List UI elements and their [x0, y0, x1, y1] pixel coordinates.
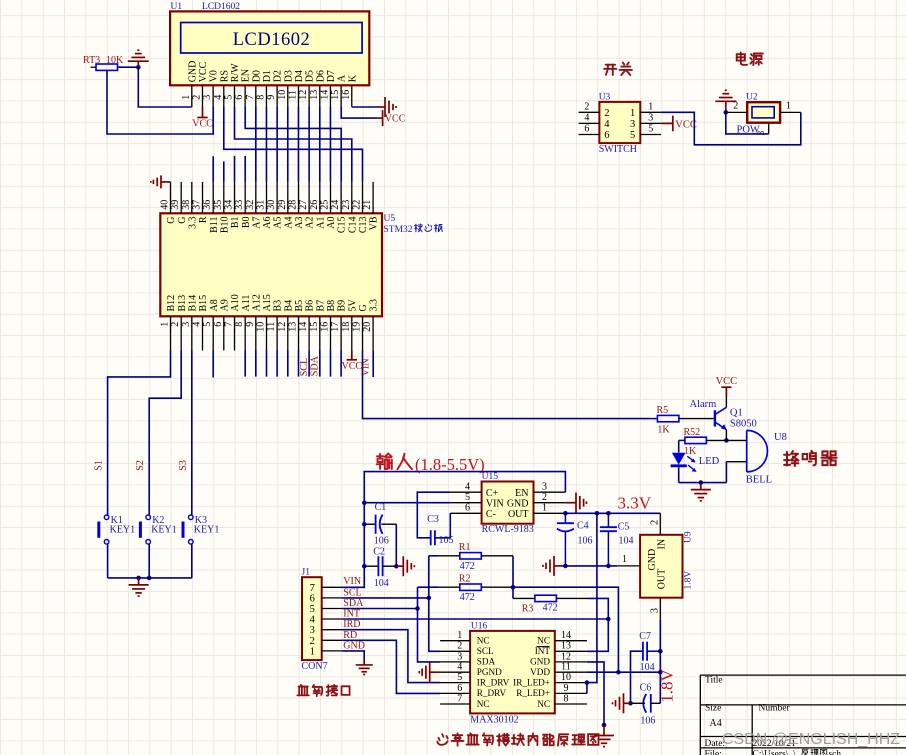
- svg-text:B9: B9: [337, 300, 348, 312]
- svg-text:3: 3: [542, 482, 547, 493]
- heading 电源 (power): [737, 52, 747, 64]
- svg-text:R1: R1: [459, 542, 471, 553]
- svg-text:PGND: PGND: [477, 667, 502, 677]
- svg-text:VCC: VCC: [342, 361, 363, 372]
- svg-text:28: 28: [288, 200, 299, 210]
- J1 pin 1: [322, 650, 343, 652]
- svg-text:STM32: STM32: [384, 225, 413, 235]
- svg-text:KEY1: KEY1: [110, 525, 136, 536]
- U5 pin 28 A3: [298, 182, 300, 213]
- svg-text:1K: 1K: [657, 425, 670, 436]
- ground below pin12 wire: [603, 725, 605, 736]
- U9 pin2 IN: [659, 513, 661, 535]
- svg-text:R: R: [198, 216, 209, 223]
- svg-text:14: 14: [561, 630, 571, 641]
- svg-text:D0: D0: [251, 70, 262, 82]
- wire U15 pin5 VIN: [364, 502, 450, 504]
- resistor R1: [460, 553, 482, 559]
- U3 left pin 2: [579, 111, 600, 113]
- svg-text:SCL: SCL: [299, 358, 310, 376]
- U15 right pin 1: [534, 512, 566, 514]
- IC U15 RCWL-9183: [482, 482, 534, 524]
- svg-text:11: 11: [266, 322, 277, 332]
- wire LCD pin15 A to VCC: [341, 107, 377, 118]
- svg-text:14: 14: [319, 90, 330, 100]
- wire R1 left down to U16 SCL: [429, 556, 440, 652]
- wire LCD D6 to U5 pin 26: [319, 107, 321, 182]
- U1 pin 14 D7: [329, 85, 331, 107]
- switch K3 KEY1: [189, 515, 194, 520]
- U1 pin 16 K: [351, 85, 353, 107]
- svg-text:12: 12: [277, 322, 288, 332]
- svg-text:A12: A12: [251, 294, 262, 311]
- svg-text:C15: C15: [337, 217, 348, 234]
- wire INT: [342, 618, 608, 620]
- J1 pin 5: [322, 608, 343, 610]
- power VCC at Q1 collector: [725, 387, 727, 396]
- svg-text:4: 4: [310, 615, 316, 626]
- svg-text:27: 27: [298, 200, 309, 210]
- U5 pin 33 B0: [244, 182, 246, 213]
- U16 pin 5: [440, 682, 470, 684]
- stub wire U5 pin 15: [319, 351, 321, 377]
- svg-text:19: 19: [352, 322, 363, 332]
- svg-text:16: 16: [320, 322, 331, 332]
- svg-text:CSDN @ENGLISH_HHZ: CSDN @ENGLISH_HHZ: [722, 731, 900, 748]
- wire LCD D5 to U5 pin 27: [308, 107, 310, 182]
- svg-text:V0: V0: [209, 70, 220, 82]
- U3 left pin 6: [579, 134, 600, 136]
- power VCC at U3 pin3: [661, 122, 673, 124]
- svg-text:1: 1: [622, 554, 627, 565]
- power VCC at U5 pin18: [351, 351, 353, 360]
- wire key ground rail: [108, 577, 192, 579]
- U5 pin 35 B10: [223, 182, 225, 213]
- svg-text:472: 472: [543, 603, 558, 614]
- U1 pin 3 V0: [212, 85, 214, 107]
- svg-text:NC: NC: [537, 636, 550, 646]
- wire U16 pin12 GND: [587, 662, 604, 725]
- svg-text:RT3: RT3: [83, 55, 100, 66]
- wire 3.3V down to LED+ pins: [587, 513, 597, 682]
- svg-text:R52: R52: [684, 427, 701, 438]
- J1 pin 3: [322, 629, 343, 631]
- U5 pin 22 C13: [362, 182, 364, 213]
- svg-text:B15: B15: [198, 295, 209, 312]
- svg-text:104: 104: [374, 578, 389, 589]
- svg-text:A1: A1: [315, 217, 326, 229]
- svg-text:RCWL-9183: RCWL-9183: [482, 524, 534, 535]
- U16 pin 12: [555, 661, 587, 663]
- svg-text:12: 12: [298, 90, 309, 100]
- resistor R5: [657, 415, 679, 421]
- svg-text:4: 4: [584, 113, 589, 124]
- svg-text:6: 6: [310, 593, 315, 604]
- U1 pin 12 D5: [308, 85, 310, 107]
- svg-text:IN: IN: [656, 539, 667, 550]
- svg-text:D2: D2: [273, 70, 284, 82]
- svg-text:D5: D5: [305, 70, 316, 82]
- U3 left pin 4: [579, 122, 600, 124]
- LED arrows: [687, 456, 694, 461]
- IC U3: [599, 102, 640, 143]
- svg-text:1K: 1K: [684, 446, 697, 457]
- svg-text:25: 25: [320, 200, 331, 210]
- J1 pin 4: [322, 618, 343, 620]
- svg-text:S1: S1: [94, 460, 105, 471]
- U5 pin 17 B9: [340, 316, 342, 350]
- ground at LCD pin16: [378, 106, 385, 108]
- wire LCD pin6 EN to U5 pin24: [245, 107, 341, 182]
- U5 pin 34 B1: [234, 182, 236, 213]
- U15 left pin 5: [450, 502, 481, 504]
- svg-text:G: G: [166, 217, 177, 224]
- svg-text:C5: C5: [618, 521, 630, 532]
- wire U16 pin13 INT: [587, 619, 608, 651]
- svg-text:10K: 10K: [106, 55, 124, 66]
- svg-text:SDA: SDA: [310, 355, 321, 376]
- node U2 pin2 junction: [724, 110, 729, 115]
- svg-text:BELL: BELL: [746, 474, 772, 485]
- U5 pin 16 B8: [330, 316, 332, 350]
- svg-text:5: 5: [310, 604, 315, 615]
- svg-text:17: 17: [330, 322, 341, 332]
- heading 血氧接口 (blood oxygen port): [297, 685, 308, 695]
- svg-text:5: 5: [457, 672, 462, 683]
- svg-text:32: 32: [245, 200, 256, 210]
- svg-text:13: 13: [561, 641, 571, 652]
- power VCC at LCD pin2: [202, 107, 204, 118]
- svg-text:Q1: Q1: [730, 407, 743, 418]
- stub wire U5 pin 11: [276, 351, 278, 377]
- wire LCD D4 to U5 pin 28: [297, 107, 299, 182]
- ground below keys: [138, 578, 140, 585]
- svg-text:GND: GND: [530, 657, 550, 667]
- stub wire U5 pin 16: [330, 351, 332, 377]
- switch K2 KEY1: [146, 515, 151, 520]
- U15 left pin 6: [450, 512, 481, 514]
- svg-text:LED: LED: [699, 456, 720, 467]
- heading 输入 (1.8-5.5V): [377, 454, 392, 469]
- svg-text:C6: C6: [640, 683, 652, 694]
- svg-text:3: 3: [648, 113, 653, 124]
- svg-text:VDD: VDD: [530, 667, 550, 677]
- svg-text:4: 4: [457, 662, 462, 673]
- svg-text:16: 16: [341, 90, 352, 100]
- wire below key: [148, 544, 150, 578]
- U3 right pin 1: [640, 111, 661, 113]
- svg-text:6: 6: [457, 683, 462, 694]
- svg-text:21: 21: [362, 200, 373, 210]
- U5 pin 5 A8: [212, 316, 214, 350]
- svg-text:D4: D4: [294, 70, 305, 82]
- svg-text:GND: GND: [647, 549, 658, 571]
- wire U5 pin3 to key K3: [191, 351, 193, 516]
- capacitor C2: [364, 565, 378, 567]
- svg-text:VIN: VIN: [486, 498, 504, 509]
- svg-text:8: 8: [256, 95, 267, 100]
- svg-text:4: 4: [604, 119, 610, 130]
- svg-text:20: 20: [362, 322, 373, 332]
- svg-text:29: 29: [277, 200, 288, 210]
- U16 pin 2: [440, 650, 470, 652]
- stub wire U5 pin 8: [244, 351, 246, 377]
- resistor R2: [460, 584, 482, 590]
- svg-text:LCD1602: LCD1602: [202, 2, 240, 12]
- svg-text:4: 4: [213, 95, 224, 100]
- svg-text:15: 15: [330, 90, 341, 100]
- svg-text:C-: C-: [486, 509, 496, 520]
- wire U16 pin11 VDD 1.8V rail: [587, 671, 660, 673]
- svg-text:33: 33: [234, 200, 245, 210]
- svg-text:B0: B0: [241, 217, 252, 229]
- svg-text:A4: A4: [283, 217, 294, 229]
- svg-text:39: 39: [170, 200, 181, 210]
- U5 pin 10 A15: [266, 316, 268, 350]
- wire LCD pin16 K to ground: [352, 106, 378, 108]
- J1 pin 7: [322, 586, 343, 588]
- stub wire U5 pin20 + net label VIN: [372, 351, 374, 378]
- ground left of C6: [624, 702, 631, 704]
- wire LCD D2 to U5 pin 30: [276, 107, 278, 182]
- svg-text:VB: VB: [369, 216, 380, 230]
- wire U3 pin1 to U2 pin1: [661, 112, 801, 145]
- IC U1 LCD1602: [170, 11, 369, 85]
- svg-text:7: 7: [310, 583, 315, 594]
- svg-text:A2: A2: [305, 217, 316, 229]
- svg-text:35: 35: [213, 200, 224, 210]
- svg-text:24: 24: [330, 200, 341, 210]
- svg-text:5: 5: [630, 130, 635, 141]
- svg-text:6: 6: [465, 503, 470, 514]
- U15 right pin 3: [534, 491, 566, 493]
- svg-text:IR_LED+: IR_LED+: [513, 677, 550, 687]
- U5 pin 37 R: [202, 182, 204, 213]
- wire SDA: [342, 608, 417, 610]
- transistor Q1 S8050: [714, 410, 716, 426]
- U5 pin 19 G: [362, 316, 364, 350]
- U1 pin 4 RS: [223, 85, 225, 107]
- wire VIN vertical: [342, 472, 565, 588]
- J1 pin 6: [322, 597, 343, 599]
- GND rail to U9 pin1: [561, 565, 617, 567]
- svg-text:CON7: CON7: [302, 661, 328, 672]
- svg-text:1.8V: 1.8V: [684, 571, 694, 590]
- svg-text:IRD: IRD: [343, 619, 360, 630]
- U1 pin 1 GND: [191, 85, 193, 107]
- svg-text:B7: B7: [315, 300, 326, 312]
- svg-text:2: 2: [649, 520, 660, 525]
- svg-text:11: 11: [561, 662, 571, 673]
- U2 pin1: [780, 111, 801, 113]
- U16 pin 6: [440, 692, 470, 694]
- svg-text:NC: NC: [537, 699, 550, 709]
- svg-text:9: 9: [245, 322, 256, 327]
- wire C1 right down: [395, 524, 397, 566]
- svg-text:A3: A3: [294, 217, 305, 229]
- svg-text:B5: B5: [294, 300, 305, 312]
- U1 pin 7 D0: [255, 85, 257, 107]
- svg-text:13: 13: [309, 90, 320, 100]
- wire LCD pin1 GND to RT3 junction: [138, 67, 192, 107]
- svg-text:Size: Size: [705, 704, 721, 714]
- svg-text:G: G: [358, 304, 369, 311]
- svg-text:1: 1: [630, 108, 635, 119]
- svg-text:A9: A9: [219, 299, 230, 311]
- stub wire U5 pin 13: [298, 351, 300, 377]
- svg-text:B8: B8: [326, 300, 337, 312]
- svg-text:3: 3: [310, 625, 315, 636]
- node pin10 junction + tie pins 9-10: [585, 680, 590, 685]
- svg-text:5V: 5V: [347, 299, 358, 312]
- wire R52 left down to LED: [678, 440, 680, 452]
- U9 pin3 OUT: [659, 598, 661, 620]
- wire GND from J1 pin1: [342, 651, 364, 659]
- resistor RT3 (pot): [96, 64, 118, 70]
- svg-text:6: 6: [234, 95, 245, 100]
- power VCC at LCD pin15: [377, 117, 382, 119]
- svg-text:10: 10: [561, 672, 571, 683]
- svg-text:1: 1: [181, 95, 192, 100]
- stub wire U5 pin 17: [340, 351, 342, 377]
- svg-text:SCL: SCL: [343, 587, 361, 598]
- svg-text:15: 15: [309, 322, 320, 332]
- svg-text:NC: NC: [477, 636, 490, 646]
- wire RT3 wiper to LCD pin3 V0: [107, 70, 213, 134]
- svg-text:SDA: SDA: [477, 657, 496, 667]
- svg-text:10: 10: [277, 90, 288, 100]
- U1 pin 15 A: [340, 85, 342, 107]
- U1 pin 6 EN: [244, 85, 246, 107]
- svg-text:R_LED+: R_LED+: [516, 688, 550, 698]
- U2 pin3: [768, 123, 770, 134]
- svg-text:A10: A10: [230, 294, 241, 311]
- stub wire U5 pin 12: [287, 351, 289, 377]
- U5 pin 6 A9: [223, 316, 225, 350]
- U16 pin 7: [440, 703, 470, 705]
- node emitter junction: [724, 438, 729, 443]
- svg-text:5: 5: [465, 492, 470, 503]
- svg-text:2: 2: [542, 492, 547, 503]
- svg-text:VIN: VIN: [343, 576, 361, 587]
- IC U16 MAX30102: [470, 631, 555, 714]
- U3 right pin 3: [640, 122, 661, 124]
- U5 pin 7 A10: [234, 316, 236, 350]
- wire to bell pin2: [725, 462, 727, 483]
- svg-text:472: 472: [460, 561, 475, 572]
- U5 pin 15 B7: [319, 316, 321, 350]
- svg-text:37: 37: [192, 200, 203, 210]
- svg-text:U2: U2: [746, 92, 758, 102]
- stub wires above U5 pins 36-33: [212, 156, 214, 182]
- wire LCD D1 to U5 pin 31: [265, 107, 267, 182]
- svg-text:7: 7: [245, 95, 256, 100]
- U5 pin 26 A1: [319, 182, 321, 213]
- heading 蜂鸣器 (buzzer): [784, 451, 798, 466]
- svg-text:IR_DRV: IR_DRV: [477, 677, 510, 687]
- svg-text:B11: B11: [209, 217, 220, 233]
- svg-text:3.3V: 3.3V: [618, 494, 652, 513]
- svg-text:U8: U8: [774, 432, 787, 443]
- svg-text:B3: B3: [273, 300, 284, 312]
- svg-text:1: 1: [160, 322, 171, 327]
- wire LCD D0 to U5 pin 32: [255, 107, 257, 182]
- svg-text:GND: GND: [507, 498, 529, 509]
- wire R3 right to INT node: [588, 598, 609, 619]
- svg-text:38: 38: [181, 200, 192, 210]
- U3 right pin 5: [640, 134, 661, 136]
- svg-text:C3: C3: [427, 514, 439, 525]
- U16 pin 11: [555, 671, 587, 673]
- U5 pin 40 G: [170, 182, 172, 213]
- svg-text:3: 3: [181, 322, 192, 327]
- svg-text:106: 106: [374, 536, 389, 547]
- svg-text:VCC: VCC: [198, 61, 209, 82]
- ground at U5 pin40: [161, 181, 171, 183]
- wire U5 pin1 to key K1: [108, 351, 171, 516]
- capacitor C5: [600, 526, 617, 528]
- IC U9 1.8V regulator: [640, 535, 682, 598]
- svg-text:2: 2: [584, 102, 589, 113]
- U5 pin 39 G: [180, 182, 182, 213]
- svg-text:VIN: VIN: [361, 358, 372, 376]
- svg-text:C14: C14: [347, 217, 358, 234]
- U5 pin 31 A6: [266, 182, 268, 213]
- U1 pin 2 VCC: [201, 85, 203, 107]
- ground at U15 pin2: [565, 502, 576, 504]
- node rail junction: [699, 480, 704, 485]
- svg-text:13: 13: [288, 322, 299, 332]
- svg-text:104: 104: [619, 536, 634, 547]
- resistor R52: [685, 437, 707, 443]
- svg-text:C4: C4: [577, 521, 589, 532]
- svg-text:1: 1: [786, 101, 791, 112]
- svg-text:R5: R5: [657, 405, 669, 416]
- ground below alarm: [700, 483, 702, 490]
- svg-text:5: 5: [224, 95, 235, 100]
- U1 pin 10 D3: [287, 85, 289, 107]
- wire below key: [107, 544, 109, 578]
- svg-text:U5: U5: [384, 214, 396, 224]
- svg-text:Number: Number: [759, 704, 791, 714]
- svg-text:NC: NC: [477, 699, 490, 709]
- U5 pin 2 B13: [180, 316, 182, 350]
- svg-text:R/W: R/W: [230, 63, 241, 82]
- resistor R3: [535, 595, 557, 601]
- svg-text:GND: GND: [343, 640, 365, 651]
- svg-text:26: 26: [309, 200, 320, 210]
- svg-text:B14: B14: [187, 295, 198, 312]
- wire LCD pin5 R/W to U5 pin23: [235, 107, 352, 182]
- svg-text:U15: U15: [482, 472, 499, 482]
- svg-text:U3: U3: [599, 92, 611, 102]
- ground (earth) above RT3: [137, 61, 139, 67]
- U16 pin 9: [555, 692, 587, 694]
- svg-text:C+: C+: [486, 488, 499, 499]
- svg-text:A15: A15: [262, 294, 273, 311]
- pullup rail to 1.8V: [513, 587, 618, 672]
- svg-text:8: 8: [234, 322, 245, 327]
- stub wire U5 pin 14: [308, 351, 310, 377]
- svg-text:6: 6: [584, 124, 589, 135]
- svg-text:1.8V: 1.8V: [658, 669, 677, 703]
- U2 pin2: [726, 111, 747, 113]
- stub wire U5 pin 10: [266, 351, 268, 377]
- svg-text:MAX30102: MAX30102: [470, 715, 518, 726]
- node rail junctions: [136, 576, 141, 581]
- svg-text:G: G: [177, 217, 188, 224]
- svg-text:U1: U1: [171, 2, 183, 12]
